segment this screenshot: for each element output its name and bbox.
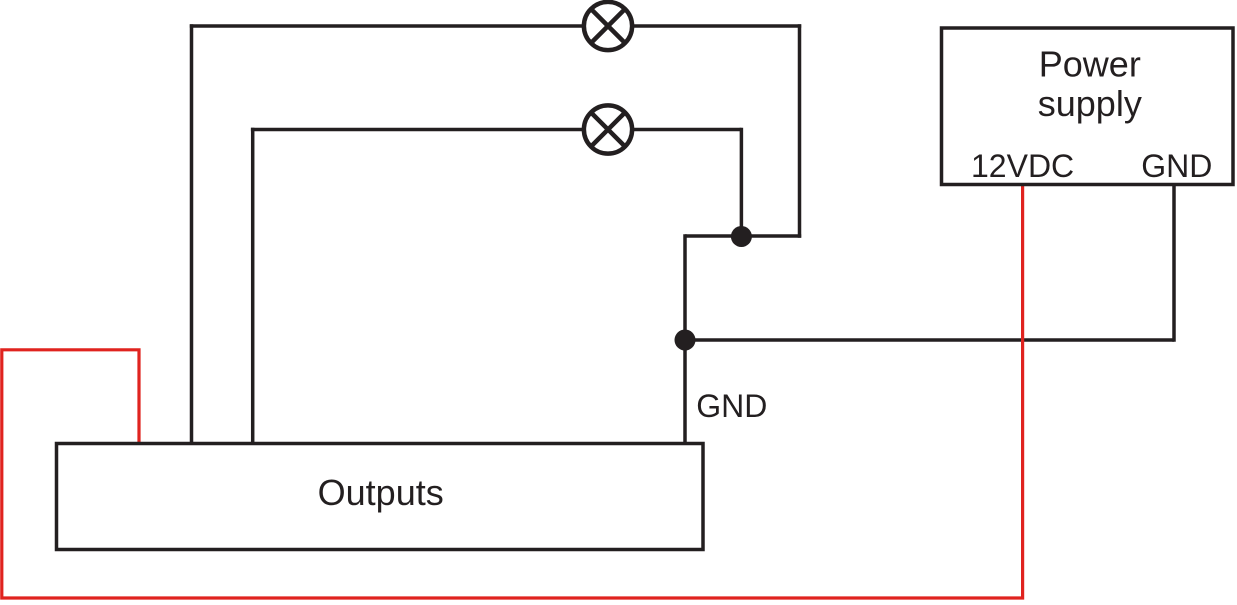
wire: GND drop from power supply <box>1172 183 1176 342</box>
wire: left drop from lamp L1 to Outputs box <box>190 24 194 444</box>
outputs box <box>57 444 704 550</box>
svg-text:GND: GND <box>1141 148 1212 184</box>
power supply box <box>942 28 1234 185</box>
wire: +12V red lead from power supply down, across bottom, up and into Outputs <box>2 184 1023 598</box>
wire: ground horizontal to power supply <box>685 338 1174 342</box>
wire: drop from lamp L2 run to junction A <box>740 128 744 237</box>
svg-text:Power: Power <box>1039 44 1141 85</box>
svg-text:12VDC: 12VDC <box>971 148 1074 184</box>
wire: GND vertical into Outputs box <box>683 234 687 444</box>
junction A dot <box>731 226 752 247</box>
lamp L1 <box>584 2 632 50</box>
wire: left drop from lamp L2 to Outputs box <box>251 128 255 444</box>
svg-text:supply: supply <box>1038 83 1142 124</box>
svg-text:GND: GND <box>696 388 767 424</box>
svg-text:Outputs: Outputs <box>318 472 444 513</box>
wire: lamp L1 top horizontal run <box>190 24 801 28</box>
wire: lamp L2 horizontal run <box>251 128 742 132</box>
wire: junction row horizontal <box>685 234 801 238</box>
wire: right drop from lamp L1 run to junction row <box>798 24 802 238</box>
junction B dot <box>675 330 696 351</box>
lamp L2 <box>584 105 632 153</box>
